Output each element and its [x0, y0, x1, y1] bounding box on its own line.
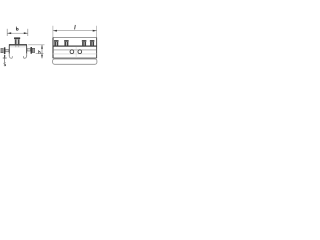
rail bolt 2 nut blocks	[64, 42, 66, 46]
C-profile right wall lower fade	[26, 53, 28, 56]
C-profile rod trace inside	[15, 45, 16, 47]
dimension l: left arrowhead	[53, 30, 57, 32]
rail light line	[53, 53, 97, 55]
dimension h: top extension line	[28, 44, 44, 46]
joint hole left	[70, 50, 74, 54]
C-profile right wall upper	[25, 45, 26, 54]
C-profile bottom right lip curl	[23, 55, 26, 58]
dimension h: bottom arrowhead pointing down	[41, 55, 43, 59]
top hanger bolt head	[14, 37, 20, 39]
dimension s: arrow pointing down to lip bottom	[4, 55, 5, 58]
rail seam line	[53, 49, 97, 51]
dimension s: upper tick line	[3, 57, 7, 59]
dimension s: lower tick line	[3, 58, 7, 60]
right side bolt head	[32, 48, 35, 53]
rail right edge	[96, 38, 98, 59]
dimension l: right extension line	[96, 26, 98, 38]
dimension b: label b	[16, 27, 18, 31]
dimension b: dimension line	[7, 32, 28, 34]
rail bolt 3 head	[82, 40, 87, 42]
C-profile top band	[9, 44, 27, 45]
background	[0, 0, 100, 100]
dimension h: label h	[39, 50, 41, 53]
dimension l: dimension line	[53, 30, 97, 32]
C-profile left wall upper	[9, 45, 10, 54]
rail bottom edge line	[53, 57, 97, 59]
dimension h: vertical dimension line	[41, 45, 43, 59]
rail top surface band	[53, 46, 97, 47]
top hanger bolt rod gap	[17, 40, 18, 45]
right side bolt shaft	[27, 49, 30, 51]
rail left edge	[52, 38, 54, 59]
dimension l: right arrowhead	[93, 30, 97, 32]
dimension b: left arrowhead	[7, 32, 11, 34]
rail top line	[53, 37, 97, 39]
dimension h: mid extension line	[36, 53, 44, 55]
rail bolt 1 nut blocks	[54, 42, 56, 46]
rail bolt 4 nut blocks	[90, 42, 92, 46]
C-profile inner top line	[10, 46, 26, 48]
right side bolt washer	[31, 47, 33, 54]
top hanger bolt nut right block (hatched)	[18, 40, 20, 45]
C-profile left wall lower fade	[8, 53, 10, 56]
left side bolt head	[1, 48, 4, 53]
left side bolt washer	[4, 47, 6, 54]
dimension b: right arrowhead	[24, 32, 28, 34]
left side bolt shaft	[5, 50, 8, 52]
dimension b: right extension line	[27, 29, 29, 36]
rail bolt 1 head	[54, 40, 59, 42]
rail bolt 4 head	[90, 40, 95, 42]
joint hole right	[78, 50, 82, 54]
dimension l: left extension line	[52, 26, 54, 38]
rail bolt 2 head	[64, 40, 69, 42]
dimension s: vertical line	[4, 55, 6, 62]
dimension s: label s	[4, 63, 6, 66]
dimension b: left extension line	[6, 29, 8, 36]
dimension h: top arrowhead pointing up	[41, 45, 43, 49]
C-profile bottom left lip curl	[9, 55, 12, 58]
rail bolt 3 nut blocks	[82, 42, 84, 46]
dimension l: label l	[74, 25, 77, 30]
rail bottom capsule	[53, 59, 97, 64]
top hanger bolt nut left block (hatched)	[15, 40, 17, 45]
rail joint line	[75, 47, 77, 58]
